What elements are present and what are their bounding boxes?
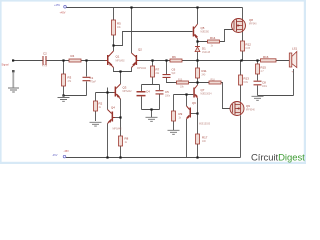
svg-text:R2: R2 — [99, 102, 103, 106]
svg-text:Q1: Q1 — [116, 55, 120, 59]
svg-text:-45V: -45V — [64, 150, 70, 153]
svg-text:R13: R13 — [244, 77, 250, 81]
svg-text:IRF540: IRF540 — [249, 24, 257, 26]
svg-text:R14: R14 — [210, 36, 216, 40]
svg-text:R5: R5 — [117, 22, 121, 26]
svg-text:MPSA42: MPSA42 — [123, 90, 133, 93]
svg-text:Q3: Q3 — [123, 86, 127, 90]
svg-text:1N4148: 1N4148 — [202, 52, 211, 54]
svg-text:5pF: 5pF — [172, 73, 177, 75]
svg-text:Q6: Q6 — [192, 101, 196, 105]
svg-text:MPSA92: MPSA92 — [137, 67, 147, 70]
svg-text:C8: C8 — [262, 81, 266, 85]
svg-text:100n: 100n — [165, 96, 171, 98]
svg-text:C6: C6 — [172, 68, 176, 72]
svg-text:R8: R8 — [125, 137, 129, 141]
svg-text:IRF9540: IRF9540 — [246, 110, 256, 112]
svg-text:R10: R10 — [178, 80, 183, 82]
svg-text:MJE15035: MJE15035 — [199, 124, 211, 126]
svg-text:LS1: LS1 — [292, 47, 298, 51]
svg-text:C1: C1 — [90, 76, 94, 80]
svg-text:R4: R4 — [71, 54, 75, 58]
svg-text:Q8: Q8 — [249, 18, 253, 22]
svg-text:Q5: Q5 — [201, 26, 205, 30]
svg-text:Q9: Q9 — [246, 104, 250, 108]
svg-text:R3: R3 — [68, 76, 72, 80]
svg-text:C4: C4 — [146, 90, 150, 94]
svg-text:CírcuitDigest: CírcuitDigest — [251, 153, 305, 164]
svg-text:+45V: +45V — [54, 3, 60, 7]
svg-text:470n: 470n — [42, 66, 48, 68]
svg-text:C5: C5 — [165, 90, 169, 94]
svg-text:R16: R16 — [263, 55, 269, 59]
svg-text:C2: C2 — [43, 52, 47, 56]
svg-text:-45V: -45V — [52, 153, 58, 157]
svg-text:R6: R6 — [172, 55, 176, 59]
svg-text:R12: R12 — [246, 43, 252, 47]
svg-text:470pF: 470pF — [90, 82, 97, 84]
svg-text:D1: D1 — [202, 47, 206, 51]
svg-text:Q7: Q7 — [201, 88, 205, 92]
svg-text:Q2: Q2 — [138, 48, 142, 52]
svg-text:Q4: Q4 — [111, 106, 115, 110]
svg-text:MJE350: MJE350 — [201, 32, 210, 34]
svg-text:Signal: Signal — [2, 64, 9, 67]
svg-text:MPSA42: MPSA42 — [113, 128, 123, 131]
svg-text:R15: R15 — [261, 66, 267, 70]
svg-text:+: + — [292, 70, 294, 74]
svg-text:+45V: +45V — [60, 12, 66, 15]
svg-text:R18: R18 — [211, 80, 216, 82]
svg-text:R11: R11 — [202, 69, 207, 73]
svg-text:R17: R17 — [202, 136, 208, 140]
svg-text:0.05: 0.05 — [246, 48, 251, 50]
svg-text:R7: R7 — [156, 68, 160, 72]
svg-text:MJE15034: MJE15034 — [201, 94, 213, 96]
svg-text:R9: R9 — [179, 112, 183, 116]
svg-text:100n: 100n — [262, 86, 268, 88]
svg-text:MPSA92: MPSA92 — [116, 60, 126, 63]
